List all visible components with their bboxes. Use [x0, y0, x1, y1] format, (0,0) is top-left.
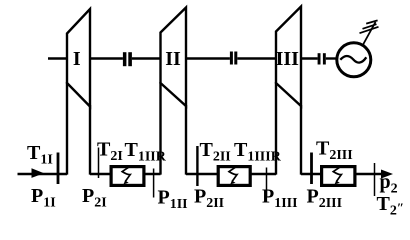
turbine I exit pipe: [89, 105, 91, 175]
ground tick long: [360, 27, 379, 33]
wire main steam inlet: [18, 173, 68, 175]
lightning bolt in box 2: [229, 166, 237, 181]
turbine I body: [67, 9, 90, 107]
bold tick at turbine I inlet: [57, 153, 60, 185]
wire shaft left stub: [48, 57, 67, 59]
turbine III inlet pipe: [275, 82, 277, 175]
coupling between II and III: [230, 52, 233, 65]
bold tick T2II: [196, 146, 198, 186]
thin tick p2: [374, 163, 376, 196]
thin tick P1II: [153, 169, 155, 198]
outlet arrow: [381, 170, 393, 179]
turbine III exit pipe: [300, 105, 302, 175]
wire shaft I-II: [90, 57, 123, 59]
wire turbine III exit to reheater 3: [301, 173, 322, 175]
turbine II inlet pipe: [159, 82, 161, 175]
svg-text:II: II: [165, 48, 181, 70]
lightning bolt in box 1: [122, 166, 130, 181]
thin tick T2I: [98, 148, 100, 179]
wire turbine II exit to reheater 2: [186, 173, 219, 175]
wire shaft III-generator: [301, 57, 318, 59]
generator G: [337, 43, 371, 77]
turbine I inlet pipe: [66, 82, 68, 175]
wire turbine I exit to reheater 1: [90, 173, 111, 175]
wire reheater 1 to turbine II: [143, 173, 161, 175]
reheater box 1: [111, 167, 144, 186]
wire shaft II-III: [186, 57, 230, 59]
turbine II body: [161, 8, 187, 107]
lightning bolt in box 3: [333, 166, 341, 181]
inlet arrow: [32, 168, 45, 178]
turbine III body: [276, 7, 301, 107]
coupling before generator: [318, 53, 321, 64]
thin tick P1III: [266, 168, 268, 198]
ground tick short: [366, 20, 377, 23]
svg-text:III: III: [276, 48, 300, 70]
svg-text:I: I: [73, 48, 81, 70]
ground tick mid: [363, 24, 377, 29]
coupling between I and II: [123, 52, 127, 66]
ground lead: [362, 22, 376, 47]
reheater box 2: [218, 167, 250, 186]
bold tick T2III: [310, 153, 313, 185]
reheater box 3: [322, 167, 355, 186]
wire reheater 2 to turbine III: [250, 173, 277, 175]
wire reheater 3 outlet: [355, 173, 389, 175]
turbine II exit pipe: [185, 105, 187, 175]
generator sine wave: [340, 56, 366, 63]
